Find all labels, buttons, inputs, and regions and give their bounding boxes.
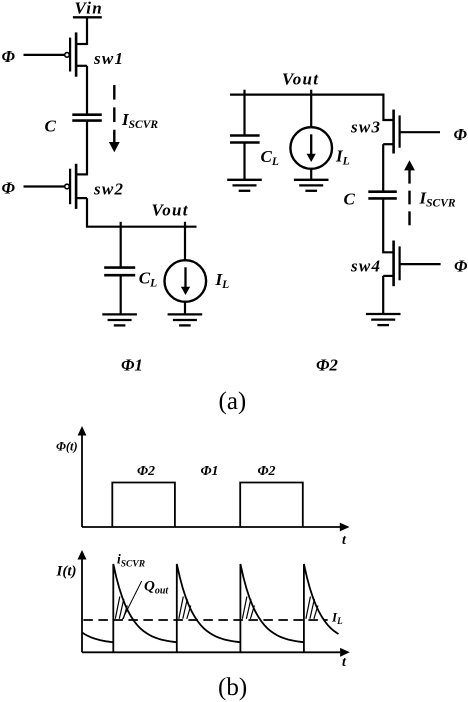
ground (right I_L)	[294, 180, 329, 191]
wire I_L to ground (right)	[310, 168, 312, 180]
svg-text:Φ: Φ	[454, 125, 468, 144]
wire C_L to ground	[120, 275, 122, 314]
wire sw2 drain to Vout rail	[87, 198, 197, 227]
current source I_L (left)	[165, 260, 207, 302]
axis I(t) horizontal	[82, 648, 350, 657]
transistor sw4	[383, 241, 399, 287]
ground (sw4)	[366, 314, 401, 325]
waveform current initial tail	[82, 633, 113, 643]
wire Vout rail to C_L	[120, 227, 122, 268]
svg-text:Vin: Vin	[75, 0, 103, 18]
wire sw4 source to ground	[382, 276, 384, 314]
wire Vout rail to sw3 drain	[383, 95, 393, 120]
svg-text:C: C	[344, 190, 356, 209]
capacitor C1	[72, 115, 102, 121]
svg-text:I(t): I(t)	[56, 564, 77, 580]
wire sw3 gate to phi	[400, 131, 440, 133]
capacitor C2	[368, 192, 397, 199]
wire Vout rail to I_L	[184, 227, 186, 262]
wire I_L to ground	[184, 301, 186, 315]
capacitor C_L (right)	[230, 136, 260, 143]
svg-text:C: C	[45, 117, 57, 136]
wire capacitor C to sw4 drain	[383, 198, 393, 252]
svg-text:Φ1: Φ1	[121, 356, 143, 375]
junction tick I_L (left)	[184, 222, 186, 227]
hatch Q_out spike 3	[242, 597, 254, 619]
svg-text:Φ(t): Φ(t)	[56, 440, 78, 454]
capacitor C_L (left)	[104, 268, 135, 276]
svg-text:Vout: Vout	[152, 201, 189, 220]
wire sw4 gate to phi	[400, 263, 441, 265]
waveform current spike 1	[113, 564, 177, 652]
current source I_L (right)	[290, 127, 332, 169]
transistor sw3	[383, 110, 399, 154]
hatch Q_out spike 4	[306, 597, 318, 619]
current arrow I_SCVR (left, dashed)	[109, 85, 120, 152]
svg-text:sw2: sw2	[93, 179, 124, 198]
svg-text:Φ1: Φ1	[201, 464, 219, 479]
wire Vout rail to C_L (right)	[243, 95, 245, 136]
transistor sw1	[65, 32, 87, 76]
wire Vin to sw1 source	[86, 17, 88, 45]
svg-text:sw3: sw3	[350, 118, 381, 137]
transistor sw2	[65, 164, 87, 209]
wire phi to sw1 gate	[24, 54, 65, 56]
svg-text:Φ: Φ	[454, 257, 468, 276]
junction tick C_L (right)	[243, 90, 245, 95]
svg-text:Φ2: Φ2	[258, 464, 276, 479]
svg-text:Φ2: Φ2	[137, 464, 155, 479]
waveform current spike 2	[177, 564, 241, 652]
wire sw1 drain to capacitor C	[86, 66, 88, 115]
waveform clock pulse 1	[112, 483, 175, 528]
axis Phi(t) horizontal	[82, 523, 350, 532]
junction tick I_L (right)	[310, 90, 312, 95]
current arrow I_SCVR (right, dashed, up)	[404, 160, 415, 227]
waveform clock pulse 2	[240, 483, 303, 528]
ground (right C_L)	[227, 180, 262, 191]
wire phi to sw2 gate	[24, 185, 65, 187]
ground (left I_L)	[168, 314, 203, 325]
svg-text:sw1: sw1	[93, 49, 124, 68]
waveform current spike 4	[304, 564, 339, 652]
svg-text:Φ: Φ	[2, 47, 16, 66]
ground (left C_L)	[102, 314, 137, 325]
hatch Q_out spike 2	[179, 597, 191, 619]
wire C_L to ground (right)	[243, 143, 245, 180]
svg-text:(b): (b)	[218, 674, 247, 701]
wire Vout rail (right)	[230, 93, 385, 95]
waveform current spike 3	[240, 564, 304, 652]
axis I(t) vertical	[78, 550, 87, 652]
wire sw3 source to capacitor C	[382, 144, 384, 191]
svg-text:sw4: sw4	[350, 257, 381, 276]
svg-text:Φ2: Φ2	[316, 356, 338, 375]
svg-text:Vout: Vout	[282, 70, 319, 89]
svg-text:(a): (a)	[219, 388, 247, 415]
svg-text:Φ: Φ	[2, 178, 16, 197]
wire Vout rail to I_L (right)	[310, 95, 312, 128]
wire capacitor C to sw2 source	[86, 121, 88, 176]
dashed level I_L	[83, 619, 327, 621]
junction tick C_L (left)	[120, 222, 122, 227]
wire Vin rail	[73, 16, 102, 18]
hatch Q_out spike 1	[115, 597, 127, 619]
pointer line Q_out	[122, 581, 141, 619]
axis Phi(t) vertical	[78, 426, 87, 527]
